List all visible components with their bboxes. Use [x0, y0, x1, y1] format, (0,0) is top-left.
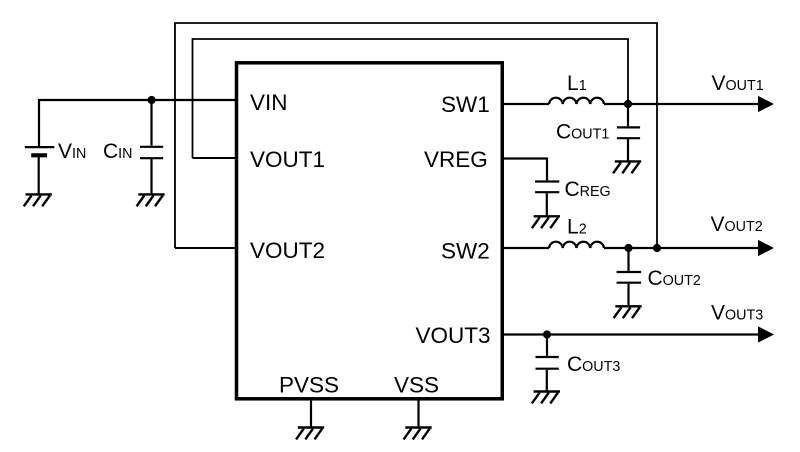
ground battery [24, 194, 52, 206]
arrow VOUT1 [758, 96, 774, 112]
wire L2 to VOUT2 arrow [604, 247, 759, 249]
svg-text:VREG: VREG [424, 147, 488, 172]
capacitor COUT1 [617, 104, 640, 161]
wire VSS pin [417, 400, 419, 427]
wire VOUT1 feedback loop (inner) [193, 39, 629, 158]
arrow VOUT3 [758, 326, 774, 342]
svg-text:VOUT2: VOUT2 [250, 238, 325, 263]
arrow VOUT2 [758, 240, 774, 256]
IC U1 body [237, 63, 503, 399]
node VOUT2 feedback junction [653, 244, 661, 252]
node input junction [148, 96, 156, 104]
capacitor COUT3 [536, 335, 559, 392]
svg-text:VOUT3: VOUT3 [416, 323, 491, 348]
node VOUT1 junction [624, 100, 632, 108]
capacitor CIN [140, 100, 163, 194]
svg-text:VIN: VIN [250, 90, 288, 115]
battery VIN [25, 147, 55, 194]
wire SW2 to L2 [503, 247, 549, 249]
wire SW1 to L1 [503, 103, 549, 105]
capacitor COUT2 [617, 248, 642, 306]
svg-text:SW1: SW1 [441, 92, 490, 117]
wire VOUT1 pin [193, 157, 236, 159]
ground COUT1 [613, 161, 641, 173]
wire VIN input [39, 100, 235, 146]
inductor L2 [549, 242, 604, 248]
wire VREG pin [503, 159, 547, 181]
ground VSS [404, 428, 432, 440]
svg-text:VOUT1: VOUT1 [250, 147, 325, 172]
svg-text:PVSS: PVSS [279, 373, 339, 398]
ground CREG [532, 216, 560, 228]
svg-text:SW2: SW2 [441, 239, 490, 264]
wire VOUT2 pin [175, 247, 235, 249]
wire VOUT3 pin to arrow [503, 333, 759, 335]
wire VOUT2 feedback loop (outer) [175, 23, 657, 248]
node VOUT3 junction [543, 330, 551, 338]
ground COUT3 [532, 392, 560, 404]
inductor L1 [549, 98, 604, 104]
wire PVSS pin [310, 400, 312, 427]
wire L1 to VOUT1 arrow [604, 103, 759, 105]
svg-text:VSS: VSS [394, 373, 439, 398]
ground CIN [137, 194, 165, 206]
node VOUT2 junction COUT2 [624, 244, 632, 252]
ground COUT2 [614, 306, 642, 318]
ground PVSS [296, 428, 324, 440]
capacitor CREG [535, 182, 559, 217]
